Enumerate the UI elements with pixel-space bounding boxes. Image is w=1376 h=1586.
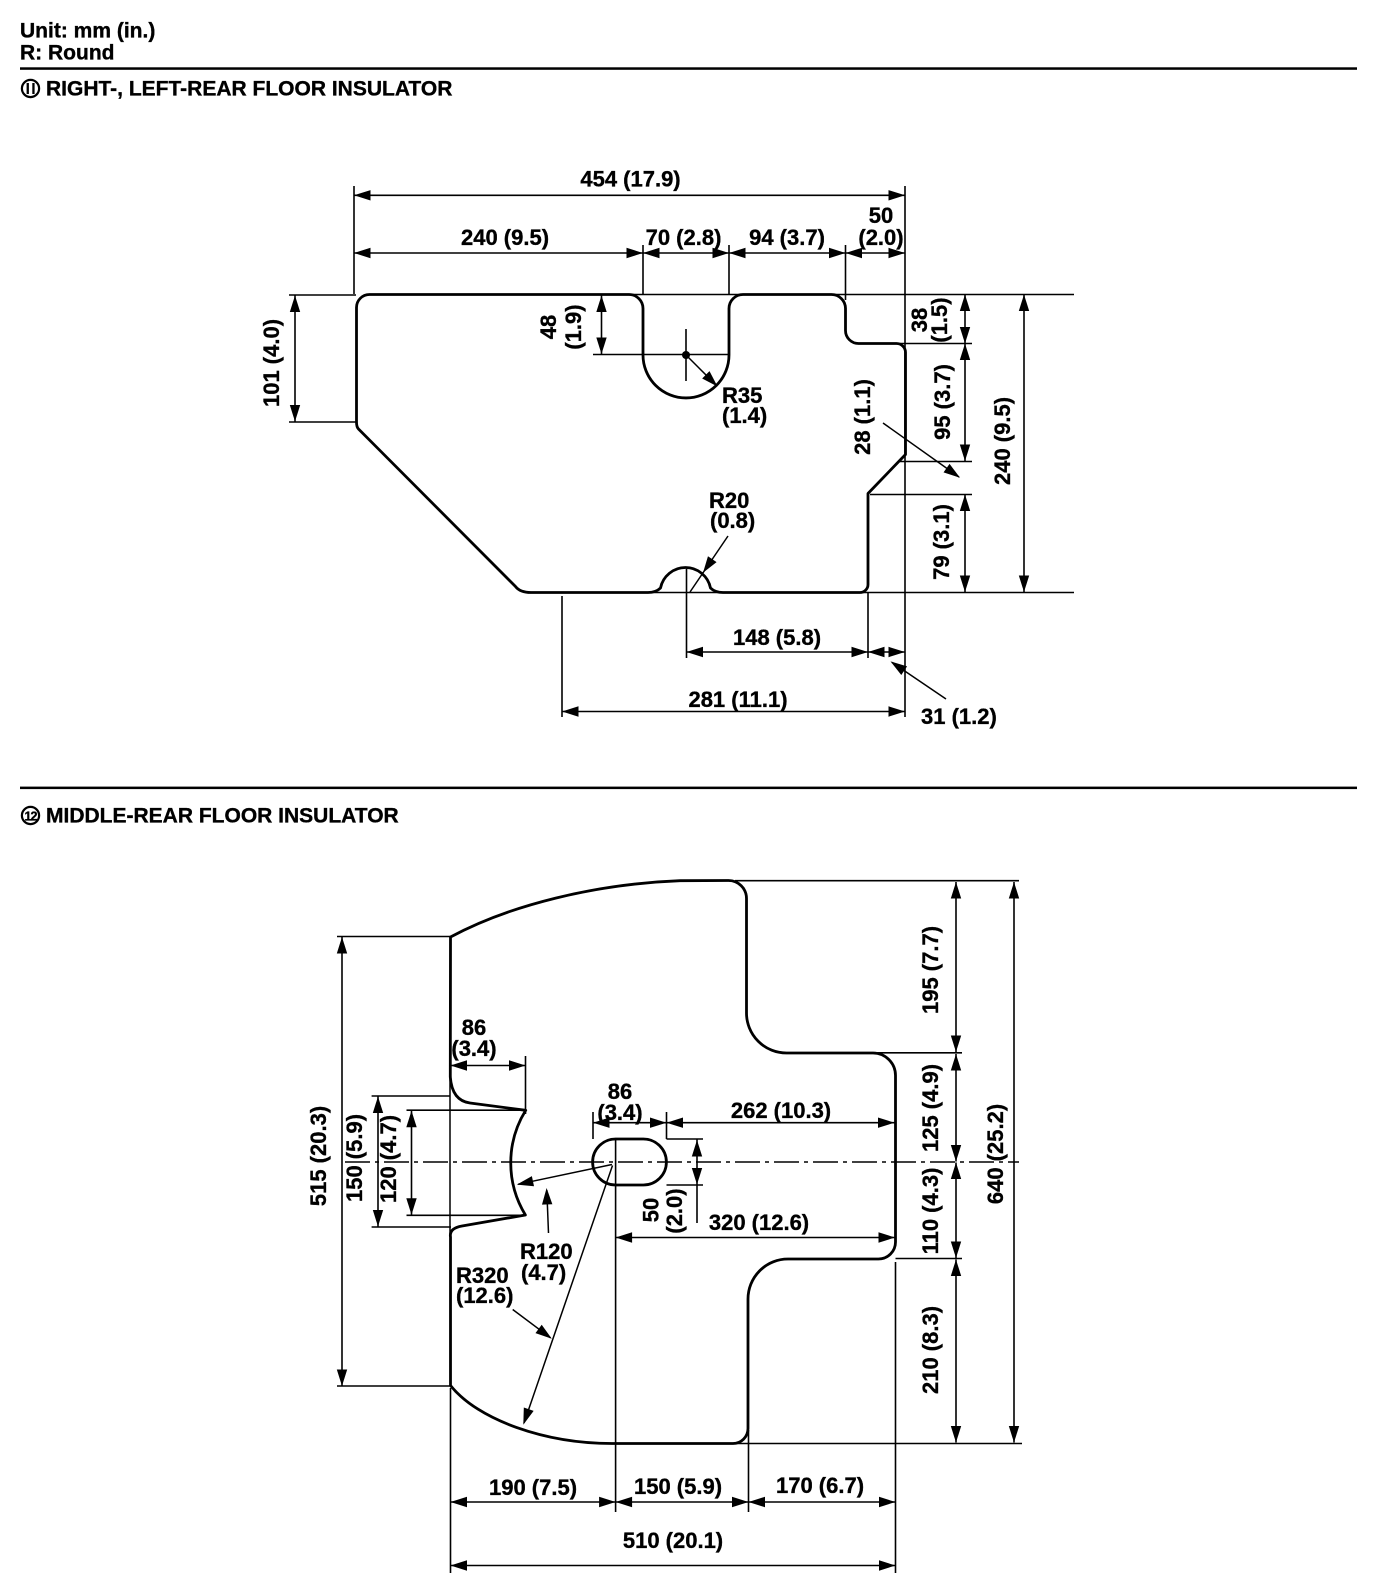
svg-text:240 (9.5): 240 (9.5) [461,225,549,250]
svg-text:50: 50 [639,1198,664,1222]
svg-text:31 (1.2): 31 (1.2) [921,704,997,729]
svg-text:RIGHT-, LEFT-REAR FLOOR INSULA: RIGHT-, LEFT-REAR FLOOR INSULATOR [46,78,452,101]
svg-text:(3.4): (3.4) [451,1036,496,1061]
svg-text:148 (5.8): 148 (5.8) [733,625,821,650]
svg-text:95 (3.7): 95 (3.7) [930,364,955,440]
svg-text:94 (3.7): 94 (3.7) [749,225,825,250]
svg-text:(1.9): (1.9) [561,304,586,349]
svg-text:454 (17.9): 454 (17.9) [580,167,680,192]
svg-text:(1.4): (1.4) [722,403,767,428]
svg-text:240 (9.5): 240 (9.5) [990,397,1015,485]
svg-text:640 (25.2): 640 (25.2) [983,1104,1008,1204]
svg-text:170 (6.7): 170 (6.7) [776,1473,864,1498]
svg-text:(3.4): (3.4) [597,1100,642,1125]
svg-text:510 (20.1): 510 (20.1) [623,1528,723,1553]
svg-text:28 (1.1): 28 (1.1) [850,379,875,455]
svg-text:320 (12.6): 320 (12.6) [709,1210,809,1235]
svg-text:Unit: mm (in.): Unit: mm (in.) [20,20,155,43]
svg-text:(0.8): (0.8) [710,508,755,533]
svg-text:101 (4.0): 101 (4.0) [259,319,284,407]
svg-text:120 (4.7): 120 (4.7) [376,1115,401,1203]
svg-text:150 (5.9): 150 (5.9) [634,1474,722,1499]
svg-text:12: 12 [25,810,38,824]
svg-text:190 (7.5): 190 (7.5) [489,1475,577,1500]
svg-text:R: Round: R: Round [20,42,114,65]
svg-text:262 (10.3): 262 (10.3) [731,1098,831,1123]
svg-text:195 (7.7): 195 (7.7) [918,926,943,1014]
svg-text:(2.0): (2.0) [858,225,903,250]
svg-text:(4.7): (4.7) [521,1260,566,1285]
svg-text:150 (5.9): 150 (5.9) [342,1114,367,1202]
svg-text:(2.0): (2.0) [662,1188,687,1233]
svg-text:(12.6): (12.6) [456,1283,513,1308]
svg-text:70 (2.8): 70 (2.8) [646,225,722,250]
svg-text:210 (8.3): 210 (8.3) [918,1306,943,1394]
svg-text:(1.5): (1.5) [927,297,952,342]
svg-text:281 (11.1): 281 (11.1) [688,687,787,712]
svg-text:MIDDLE-REAR FLOOR INSULATOR: MIDDLE-REAR FLOOR INSULATOR [46,805,399,828]
svg-text:48: 48 [536,315,561,339]
svg-text:110 (4.3): 110 (4.3) [918,1168,943,1255]
svg-text:79 (3.1): 79 (3.1) [929,504,954,580]
svg-text:515 (20.3): 515 (20.3) [306,1106,331,1206]
svg-text:125 (4.9): 125 (4.9) [918,1064,943,1152]
